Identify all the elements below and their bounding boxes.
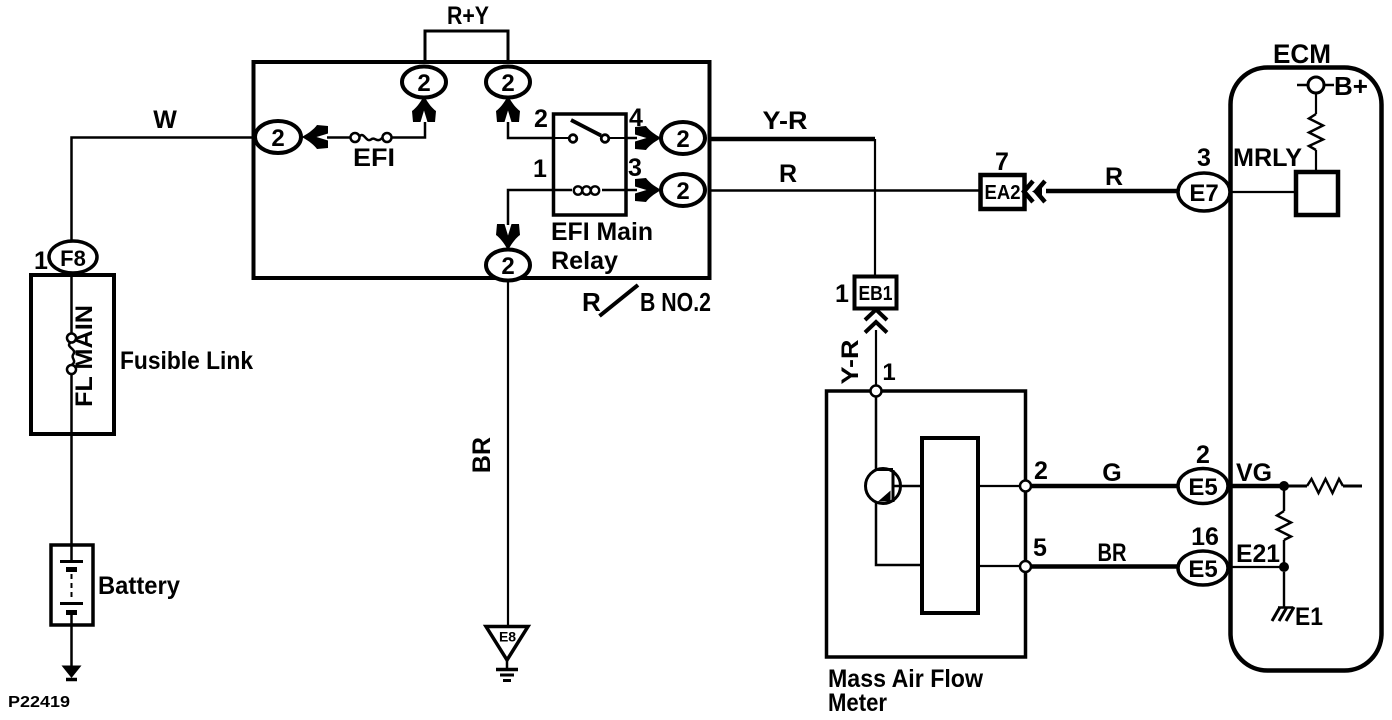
svg-text:BR: BR xyxy=(468,437,496,473)
svg-text:FL MAIN: FL MAIN xyxy=(71,305,98,407)
relay coil xyxy=(554,186,627,194)
resistor block (inside MAF) xyxy=(922,438,978,613)
ground (battery) xyxy=(62,666,82,680)
wire top-right connector down to relay pin 2 xyxy=(508,122,554,138)
svg-text:E21: E21 xyxy=(1236,540,1280,568)
connector arrow left (right of left 2) xyxy=(302,125,329,149)
fusible link FL MAIN box xyxy=(31,275,114,434)
svg-text:VG: VG xyxy=(1236,459,1272,487)
svg-text:E7: E7 xyxy=(1189,180,1218,207)
svg-text:R: R xyxy=(582,287,601,317)
connector 2 (right bottom, on block edge) xyxy=(661,174,705,206)
svg-text:E5: E5 xyxy=(1188,556,1217,583)
wire into fusible link xyxy=(70,273,73,334)
ECM box xyxy=(1231,68,1382,671)
svg-text:2: 2 xyxy=(1196,441,1210,469)
wire E5 to E21 node xyxy=(1228,566,1284,568)
wire VG node down xyxy=(1283,490,1285,511)
svg-text:Fusible Link: Fusible Link xyxy=(120,347,253,375)
svg-text:EFI: EFI xyxy=(353,144,395,172)
svg-text:Y-R: Y-R xyxy=(763,107,808,135)
svg-text:R: R xyxy=(779,160,797,188)
node MAF pin 5 xyxy=(1020,561,1031,572)
wire BR (MAF pin5 to ECM E21) xyxy=(1031,564,1178,569)
wire BR (to ground E8) xyxy=(507,281,509,627)
svg-text:1: 1 xyxy=(835,280,849,308)
svg-text:E8: E8 xyxy=(499,629,516,645)
wire node to resistor xyxy=(1284,485,1307,488)
resistor (VG to E21, vertical) xyxy=(1277,511,1291,540)
junction connector EA2 xyxy=(981,175,1025,209)
resistor (B+ pull-up) xyxy=(1309,114,1323,150)
ground E1 (chassis) xyxy=(1272,607,1294,621)
svg-text:F8: F8 xyxy=(60,246,86,271)
svg-text:2: 2 xyxy=(676,126,689,153)
svg-text:Relay: Relay xyxy=(551,247,618,275)
battery cells xyxy=(60,545,83,625)
fuse EFI xyxy=(351,133,392,142)
wire R (EA2 to ECM E7) xyxy=(1046,189,1178,194)
connector F8 with pin 1 xyxy=(34,241,97,275)
connector E5 (E21) xyxy=(1178,551,1228,585)
svg-text:BR: BR xyxy=(1098,539,1127,567)
svg-text:2: 2 xyxy=(534,105,548,133)
wire battery to ground xyxy=(70,625,73,666)
svg-text:E5: E5 xyxy=(1188,474,1217,501)
connector chevrons (below EB1, pointing up) xyxy=(865,310,887,333)
wire B+ to resistor xyxy=(1315,93,1317,114)
wire node to vane sensor xyxy=(875,397,878,470)
wire resistor tail xyxy=(1343,485,1362,488)
wire R (relay pin3 to EA2) xyxy=(710,189,981,191)
wire vane to resistor block xyxy=(893,485,922,488)
connector 2 (bottom, on block edge) xyxy=(486,250,530,281)
svg-text:1: 1 xyxy=(882,359,895,386)
svg-text:Meter: Meter xyxy=(828,689,887,717)
wire E7 to MRLY block xyxy=(1230,191,1296,193)
svg-text:Battery: Battery xyxy=(98,572,180,600)
svg-text:EB1: EB1 xyxy=(859,283,893,305)
wire Y-R (EB1 to MAF pin 1) xyxy=(875,330,877,386)
connector E5 (VG) xyxy=(1178,469,1228,504)
wire relay pin3 to connector xyxy=(626,189,637,192)
wire to MAF pin 2 xyxy=(978,485,1020,487)
svg-text:1: 1 xyxy=(533,155,547,183)
svg-text:2: 2 xyxy=(1034,457,1048,485)
svg-text:5: 5 xyxy=(1033,534,1047,562)
connector 2 (top left, pin of R+Y loop) xyxy=(402,67,446,98)
connector arrow right (pin 4) xyxy=(635,126,662,150)
junction block R/B NO.2 box xyxy=(254,62,710,278)
wire W (battery feed into block) xyxy=(72,138,254,242)
vane sensor (MAF measuring element) xyxy=(866,469,901,504)
svg-text:E1: E1 xyxy=(1295,603,1323,631)
wire VG into ECM xyxy=(1228,484,1284,489)
svg-text:16: 16 xyxy=(1191,523,1219,551)
svg-text:Y-R: Y-R xyxy=(837,340,864,385)
svg-text:R+Y: R+Y xyxy=(447,2,489,30)
resistor (VG load, horizontal) xyxy=(1307,479,1343,493)
wire E21 node to ground E1 xyxy=(1283,572,1285,607)
svg-text:ECM: ECM xyxy=(1273,39,1331,69)
wire Y-R vertical drop to EB1 xyxy=(874,139,876,276)
svg-text:EFI Main: EFI Main xyxy=(551,218,653,246)
relay EFI Main Relay box xyxy=(554,114,627,215)
connector E7 xyxy=(1178,173,1230,211)
svg-text:2: 2 xyxy=(417,70,430,97)
wire fusible link to battery xyxy=(70,374,73,545)
svg-text:2: 2 xyxy=(271,125,284,152)
svg-text:3: 3 xyxy=(628,154,642,182)
connector arrow up (below top-right 2) xyxy=(496,96,520,123)
connector 2 (right top, on block edge) xyxy=(661,122,705,154)
wire to MAF pin 5 xyxy=(978,565,1020,567)
junction E21 node xyxy=(1279,562,1289,572)
node MAF pin 2 xyxy=(1020,481,1031,492)
wire resistor to MRLY block xyxy=(1315,150,1317,172)
connector arrow up (below top-left 2) xyxy=(412,96,436,123)
mass air flow meter box xyxy=(827,391,1026,657)
svg-text:7: 7 xyxy=(995,148,1009,176)
MRLY driver block xyxy=(1296,172,1338,215)
junction connector EB1 xyxy=(855,277,897,309)
svg-text:B+: B+ xyxy=(1334,71,1368,101)
svg-text:EA2: EA2 xyxy=(985,182,1021,204)
svg-text:MRLY: MRLY xyxy=(1233,144,1302,172)
terminal B+ xyxy=(1297,71,1368,101)
junction VG node xyxy=(1279,481,1289,491)
svg-text:1: 1 xyxy=(34,247,48,275)
connector 2 (top right, pin of R+Y loop) xyxy=(486,67,530,98)
wire resistor to E21 node xyxy=(1283,540,1285,567)
fuse FL MAIN xyxy=(67,334,76,375)
relay switch contact xyxy=(554,120,627,142)
wire relay pin1 down to bottom connector xyxy=(508,190,554,225)
connector chevrons (EA2, pointing left) xyxy=(1024,181,1045,202)
svg-text:2: 2 xyxy=(676,178,689,205)
ground E8 xyxy=(486,627,528,681)
node MAF pin 1 xyxy=(871,386,882,397)
wire G (MAF pin2 to ECM VG) xyxy=(1031,484,1178,489)
svg-text:G: G xyxy=(1102,459,1121,487)
svg-text:2: 2 xyxy=(501,253,514,280)
wire Y-R (relay pin4 output) xyxy=(710,137,876,142)
svg-text:R: R xyxy=(1105,163,1123,191)
wire R+Y loop xyxy=(425,31,508,63)
wire vane bottom to resistor block lower-left xyxy=(876,503,922,565)
wire from arrow to fuse EFI xyxy=(327,136,351,139)
connector arrow right (pin 3) xyxy=(635,178,662,202)
connector 2 (left, on block edge) xyxy=(255,121,301,153)
svg-text:B NO.2: B NO.2 xyxy=(640,287,711,317)
wire relay pin4 to connector xyxy=(626,137,637,140)
battery box xyxy=(51,545,93,625)
svg-text:2: 2 xyxy=(501,70,514,97)
connector arrow down (above bottom 2) xyxy=(496,224,520,251)
svg-text:3: 3 xyxy=(1197,144,1211,172)
svg-text:W: W xyxy=(153,106,177,134)
svg-text:P22419: P22419 xyxy=(8,694,70,711)
wire fuse to top-left connector xyxy=(392,122,426,138)
